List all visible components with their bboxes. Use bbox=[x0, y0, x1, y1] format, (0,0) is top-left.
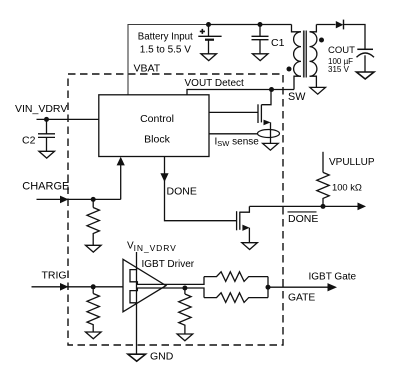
svg-text:DONE: DONE bbox=[288, 213, 318, 225]
svg-text:IGBT Gate: IGBT Gate bbox=[309, 272, 357, 283]
svg-text:GATE: GATE bbox=[288, 292, 315, 303]
svg-text:COUT: COUT bbox=[328, 45, 355, 56]
svg-text:Battery Input: Battery Input bbox=[138, 31, 193, 42]
svg-text:C2: C2 bbox=[22, 135, 36, 147]
svg-text:Control: Control bbox=[140, 113, 174, 125]
svg-text:ISW sense: ISW sense bbox=[215, 137, 260, 149]
svg-text:IGBT Driver: IGBT Driver bbox=[142, 259, 195, 270]
svg-text:CHARGE: CHARGE bbox=[22, 181, 69, 193]
svg-text:VIN_VDRV: VIN_VDRV bbox=[15, 103, 67, 115]
svg-text:VBAT: VBAT bbox=[134, 63, 161, 75]
svg-text:VPULLUP: VPULLUP bbox=[329, 157, 375, 168]
svg-text:VOUT Detect: VOUT Detect bbox=[185, 78, 244, 89]
svg-text:DONE: DONE bbox=[167, 186, 197, 198]
svg-text:SW: SW bbox=[288, 91, 306, 103]
svg-text:1.5 to 5.5 V: 1.5 to 5.5 V bbox=[140, 44, 191, 55]
svg-text:315 V: 315 V bbox=[328, 65, 350, 74]
svg-text:100 kΩ: 100 kΩ bbox=[332, 181, 362, 192]
svg-text:VIN_VDRV: VIN_VDRV bbox=[127, 240, 177, 253]
svg-text:Block: Block bbox=[144, 134, 170, 146]
svg-text:TRIG: TRIG bbox=[42, 270, 67, 282]
svg-text:GND: GND bbox=[150, 351, 174, 363]
svg-text:C1: C1 bbox=[271, 37, 285, 49]
